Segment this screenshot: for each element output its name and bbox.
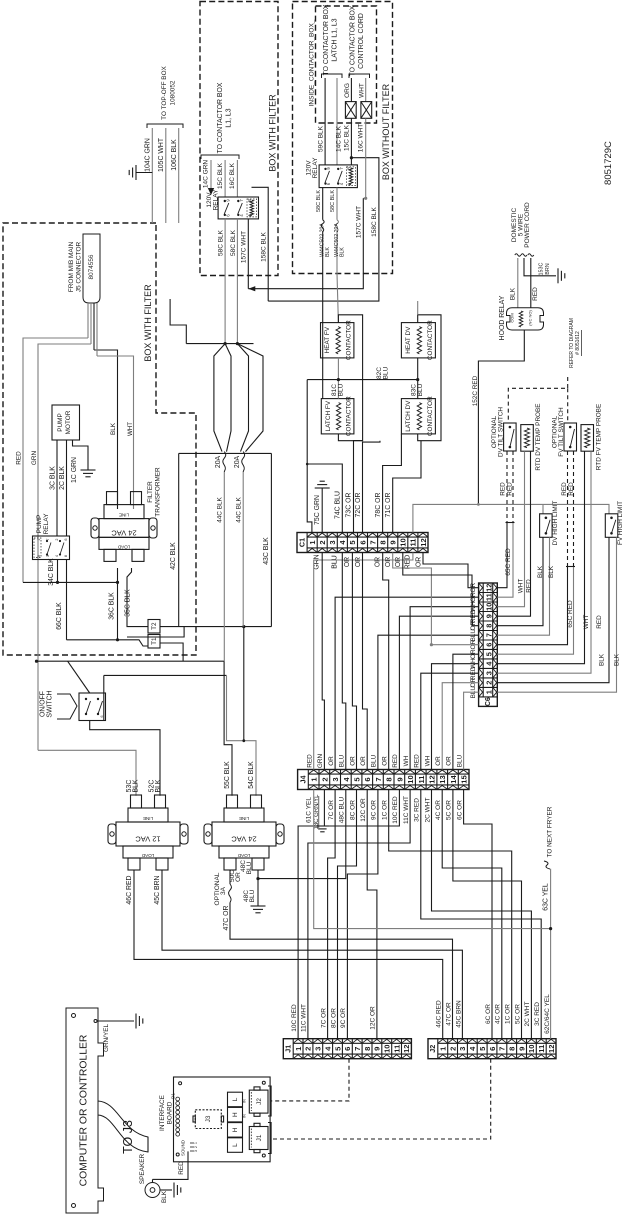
- svg-text:59C BLK: 59C BLK: [318, 125, 325, 152]
- svg-text:BOX WITH FILTER: BOX WITH FILTER: [143, 284, 153, 362]
- wire 6C OR J4-15 to J2-6: [464, 790, 492, 1039]
- svg-text:45C BRN: 45C BRN: [154, 875, 161, 904]
- svg-text:43C BLK: 43C BLK: [263, 537, 270, 565]
- svg-text:2: 2: [318, 540, 327, 544]
- wire 152C RED: [478, 330, 524, 504]
- wire GRN C1-2 to J4-2: [322, 553, 324, 770]
- dashed net to tilt switches: [508, 377, 567, 423]
- svg-text:9: 9: [389, 540, 398, 544]
- svg-text:9C OR: 9C OR: [340, 1008, 347, 1028]
- svg-text:153C: 153C: [539, 262, 545, 275]
- ground (pump motor): [81, 469, 96, 471]
- ground (48C BLU): [251, 905, 266, 907]
- svg-text:HOOD RELAY: HOOD RELAY: [499, 295, 506, 340]
- svg-text:6: 6: [363, 777, 372, 781]
- svg-text:3A: 3A: [220, 886, 227, 895]
- svg-text:BLK: BLK: [537, 565, 544, 578]
- svg-text:BRN: BRN: [545, 263, 551, 274]
- wire 36C BLK (load left): [117, 568, 119, 640]
- svg-text:J1: J1: [256, 1134, 263, 1141]
- svg-text:BLU: BLU: [417, 383, 424, 396]
- dashed box BOX WITH FILTER (contactor-box area top): [200, 2, 278, 276]
- wire 3C BLK: [56, 440, 58, 536]
- svg-text:J4: J4: [298, 776, 307, 784]
- svg-text:RED: RED: [178, 1161, 185, 1175]
- svg-text:7C OR: 7C OR: [328, 800, 335, 820]
- dashed box BOX WITH FILTER (main left enclosure): [3, 223, 196, 655]
- svg-text:T2: T2: [151, 622, 158, 630]
- svg-text:RED: RED: [414, 754, 421, 768]
- svg-text:48C BLU: 48C BLU: [339, 797, 346, 824]
- wire 55C BLK to 24VAC: [224, 661, 232, 796]
- svg-text:8: 8: [484, 624, 493, 628]
- svg-text:B: B: [347, 167, 352, 170]
- svg-text:BLK: BLK: [325, 247, 331, 257]
- svg-text:WHT: WHT: [359, 83, 366, 98]
- svg-text:65C RED: 65C RED: [505, 548, 512, 576]
- svg-text:13: 13: [438, 775, 447, 783]
- wire OR C6-11 to J4-3: [335, 597, 479, 769]
- svg-text:BOX WITHOUT FILTER: BOX WITHOUT FILTER: [381, 83, 391, 180]
- svg-text:0: 0: [37, 555, 41, 557]
- wire 66C/36C to T1: [67, 640, 149, 646]
- svg-text:62C/64C YEL: 62C/64C YEL: [544, 994, 551, 1034]
- wire 12C OR J4-6 to J1-9: [367, 790, 377, 1039]
- svg-text:J2: J2: [256, 1098, 263, 1105]
- wire 104C GRN: [151, 128, 153, 223]
- svg-text:H: H: [232, 1127, 239, 1132]
- svg-text:OR: OR: [344, 557, 351, 567]
- bracket control cord wires: [349, 74, 370, 78]
- power cord wire 153C BRN to ground: [524, 258, 556, 276]
- svg-text:BLK: BLK: [161, 1190, 168, 1203]
- wire 47C OR: [230, 903, 453, 1039]
- wire OR C1-8 to J4-8: [383, 553, 389, 770]
- power cord squiggles: [515, 254, 521, 256]
- wire 44C BLK (right): [242, 472, 244, 627]
- svg-text:CONTACTOR: CONTACTOR: [427, 320, 434, 360]
- wire 43C BLK: [270, 453, 272, 626]
- wire BLU C6-7 to J4-7: [378, 635, 479, 769]
- svg-text:4C OR: 4C OR: [435, 800, 442, 820]
- svg-text:44C BLK: 44C BLK: [217, 496, 224, 522]
- terminal strip J2: [428, 1039, 556, 1059]
- svg-text:OR: OR: [349, 756, 356, 766]
- svg-text:PUMP: PUMP: [57, 413, 64, 431]
- svg-text:OR: OR: [355, 557, 362, 567]
- svg-text:BLU: BLU: [246, 861, 253, 874]
- transformer 12 VAC: [116, 822, 180, 846]
- svg-text:8074556: 8074556: [88, 254, 95, 279]
- svg-text:L1, L3: L1, L3: [226, 108, 233, 127]
- wire 16C WHT (box2): [365, 118, 367, 198]
- branch to C1-4 (74C BLU): [307, 464, 342, 533]
- svg-text:8: 8: [385, 777, 394, 781]
- wire WH C6-4 to J4-12: [432, 664, 479, 770]
- svg-text:12: 12: [484, 584, 493, 592]
- bracket latch wires: [322, 74, 343, 78]
- svg-text:46C RED: 46C RED: [436, 1000, 443, 1028]
- svg-text:BLK: BLK: [155, 779, 162, 792]
- svg-text:16C BLK: 16C BLK: [229, 162, 236, 189]
- indicator light ORG: [350, 78, 352, 102]
- bus from T1 down-left (to on/off switch): [160, 643, 183, 661]
- svg-text:12C OR: 12C OR: [370, 1006, 377, 1030]
- svg-text:RED: RED: [16, 451, 23, 465]
- power cord wire RED: [530, 258, 532, 308]
- svg-text:45C BRN: 45C BRN: [455, 1000, 462, 1028]
- svg-text:47C OR: 47C OR: [445, 1002, 452, 1026]
- wire 7C OR J4-3 to J1-4: [328, 790, 336, 1039]
- wire RED C6-9 to J4-9: [399, 616, 478, 769]
- dashed link J2 strip to board J1: [271, 1059, 491, 1139]
- pump relay: [33, 536, 70, 560]
- svg-text:J1: J1: [283, 1045, 292, 1053]
- dashed box BOX WITHOUT FILTER: [293, 2, 393, 274]
- svg-text:IN: IN: [243, 1099, 247, 1103]
- svg-text:WH: WH: [424, 755, 431, 766]
- wire OR C1-9 to C6-6: [393, 553, 479, 645]
- wire 3C RED J4-11 to J2-11: [421, 790, 541, 1039]
- connector FROM MIB MAIN J5 8074556: [83, 234, 100, 303]
- svg-text:L: L: [232, 1143, 239, 1147]
- bus from T2 to 43C: [160, 626, 271, 628]
- svg-text:SOUND: SOUND: [181, 1140, 186, 1156]
- svg-text:LOAD: LOAD: [237, 853, 250, 858]
- svg-text:BLK: BLK: [339, 247, 345, 257]
- switch pole B wire 675 drop: [103, 675, 105, 720]
- connector J1 (board): [249, 1127, 268, 1150]
- wire OR C1-6 to J4-6: [363, 553, 368, 770]
- svg-text:36C BLK: 36C BLK: [109, 592, 116, 620]
- wire 61C YEL J4-1 to next-fryer node: [314, 790, 551, 929]
- svg-text:10: 10: [399, 538, 408, 546]
- on/off switch: [79, 693, 106, 721]
- wire 72C OR: [363, 441, 381, 534]
- svg-text:LINE: LINE: [143, 816, 153, 821]
- wire 158C BLK (box1): [252, 187, 269, 301]
- svg-text:14C GRN: 14C GRN: [203, 160, 210, 188]
- svg-text:3: 3: [328, 540, 337, 544]
- svg-text:TO J3: TO J3: [121, 1120, 135, 1154]
- svg-text:10: 10: [383, 1044, 392, 1052]
- svg-text:POWER CORD: POWER CORD: [524, 202, 531, 248]
- wire 46C RED: [134, 870, 443, 1039]
- bracket for top-off wires: [147, 124, 183, 128]
- FV loop wire: [338, 315, 362, 441]
- terminal T2: [148, 620, 160, 634]
- svg-text:BLK: BLK: [548, 565, 555, 578]
- svg-text:CONTACTOR: CONTACTOR: [345, 396, 352, 436]
- wire WH C6-10 to J4-10: [410, 607, 479, 770]
- terminal strip C6: [479, 583, 498, 706]
- svg-text:2: 2: [304, 1047, 313, 1051]
- svg-text:3C RED: 3C RED: [534, 1002, 541, 1026]
- svg-text:6: 6: [488, 1047, 497, 1051]
- svg-text:BLK: BLK: [599, 653, 606, 666]
- wire OR C1-5 to J4-5: [352, 553, 356, 770]
- svg-text:LOAD: LOAD: [117, 544, 130, 549]
- ground (13C GRN/YL): [323, 790, 325, 827]
- wire 45C BRN: [162, 870, 462, 1039]
- svg-text:BOARD: BOARD: [167, 1101, 174, 1124]
- svg-text:INTERFACE: INTERFACE: [159, 1095, 166, 1131]
- svg-text:CONTACTOR: CONTACTOR: [427, 396, 434, 436]
- DV loop wire: [418, 315, 441, 441]
- svg-text:10C RED: 10C RED: [392, 796, 399, 824]
- wire RED C1-11 to J4-1: [314, 553, 413, 770]
- svg-text:9: 9: [395, 777, 404, 781]
- svg-text:A: A: [347, 182, 352, 185]
- svg-text:34C BLK: 34C BLK: [48, 558, 55, 586]
- svg-text:OR: OR: [385, 557, 392, 567]
- FV high limit wires: [497, 537, 609, 682]
- svg-text:10C RED: 10C RED: [291, 1004, 298, 1032]
- svg-text:61C YEL: 61C YEL: [306, 797, 313, 823]
- svg-text:20A: 20A: [234, 455, 241, 468]
- wire OR C1-10 to C6-8: [403, 553, 479, 626]
- wire 35C BLK (load right): [127, 568, 148, 627]
- RTD FV temp probe: [581, 425, 594, 452]
- svg-text:1: 1: [37, 538, 41, 540]
- svg-text:T1: T1: [151, 637, 158, 645]
- dashed box INSIDE CONTACTOR BOX: [316, 6, 377, 123]
- svg-text:157C WHT: 157C WHT: [241, 231, 248, 263]
- H/L boxes: [228, 1092, 243, 1107]
- wire 106C BLK: [178, 128, 180, 223]
- wire 2C BLK: [66, 440, 68, 536]
- svg-text:7C OR: 7C OR: [320, 1008, 327, 1028]
- wire 58C BLK (2): [236, 219, 238, 344]
- svg-text:78C OR: 78C OR: [375, 493, 382, 518]
- svg-text:RTD DV TEMP PROBE: RTD DV TEMP PROBE: [535, 403, 542, 470]
- svg-text:OR: OR: [416, 557, 423, 567]
- svg-text:6: 6: [484, 643, 493, 647]
- wire BLU C6-1 to J4-15 (gray): [464, 692, 479, 769]
- svg-text:8: 8: [379, 540, 388, 544]
- svg-text:GRN: GRN: [31, 451, 38, 466]
- svg-text:4: 4: [55, 555, 59, 557]
- svg-text:C6: C6: [485, 697, 492, 706]
- svg-text:LATCH L1, L3: LATCH L1, L3: [332, 18, 339, 61]
- svg-text:44C BLK: 44C BLK: [236, 496, 243, 522]
- svg-text:FILTER: FILTER: [147, 481, 154, 503]
- wire 34C BLK: [57, 560, 59, 583]
- wire 5C OR J4-14 to J2-9: [453, 790, 522, 1039]
- fuse W44C502 20A (1) 58C BLK: [322, 188, 324, 220]
- svg-text:WHT: WHT: [583, 615, 590, 630]
- wire GRN to 53C 12VAC: [38, 750, 136, 796]
- wire 54C BLK to 24VAC: [227, 675, 257, 795]
- svg-text:3: 3: [314, 1047, 323, 1051]
- wire 105C WHT: [165, 128, 167, 223]
- DV high limit wires BLK/BLK: [497, 537, 543, 625]
- relay 120V (box with filter): [218, 197, 258, 219]
- svg-text:12 VAC: 12 VAC: [135, 835, 161, 844]
- svg-text:12: 12: [428, 775, 437, 783]
- svg-text:24 VAC: 24 VAC: [231, 835, 257, 844]
- dashed link J1 strip to board J2: [271, 1059, 349, 1101]
- svg-text:TO CONTACTOR BOX: TO CONTACTOR BOX: [350, 5, 357, 76]
- svg-text:B: B: [247, 199, 252, 202]
- svg-text:ON/OFF: ON/OFF: [40, 691, 47, 717]
- svg-text:10: 10: [406, 775, 415, 783]
- ground (75C GRN): [315, 487, 330, 489]
- FV coil wire and node 81C BLU: [337, 358, 339, 399]
- svg-text:GRN/YEL: GRN/YEL: [103, 1024, 110, 1053]
- RTD DV temp probe: [521, 425, 534, 452]
- svg-text:11: 11: [409, 538, 418, 547]
- svg-text:63C YEL: 63C YEL: [543, 883, 550, 911]
- svg-text:BLU: BLU: [371, 754, 378, 767]
- wire 4C OR J4-13 to J2-7: [442, 790, 502, 1039]
- svg-text:15C BLK: 15C BLK: [344, 124, 351, 151]
- svg-text:58C BLK: 58C BLK: [218, 229, 225, 256]
- svg-text:HEAT DV: HEAT DV: [405, 326, 412, 354]
- svg-text:MOTOR: MOTOR: [65, 410, 72, 434]
- svg-text:RELAY: RELAY: [213, 189, 220, 210]
- svg-text:3C BLK: 3C BLK: [50, 466, 57, 490]
- svg-text:3: 3: [331, 777, 340, 781]
- svg-text:C1: C1: [297, 538, 306, 547]
- svg-text:8051729C: 8051729C: [603, 141, 614, 185]
- ground (153C BRN): [557, 268, 559, 283]
- wire C1-11 to high limits (gray): [413, 504, 609, 532]
- svg-text:11: 11: [417, 775, 426, 784]
- svg-text:11C WHT: 11C WHT: [403, 796, 410, 824]
- node 58C junctions: [224, 342, 227, 345]
- svg-text:OR: OR: [382, 756, 389, 766]
- svg-text:BLU: BLU: [249, 889, 256, 902]
- svg-text:BLU: BLU: [456, 754, 463, 767]
- svg-text:COM: COM: [510, 313, 515, 322]
- svg-text:8: 8: [363, 1047, 372, 1051]
- svg-text:3: 3: [458, 1047, 467, 1051]
- svg-text:157C WHT: 157C WHT: [356, 206, 363, 238]
- wire 16C BLK: [236, 160, 238, 197]
- svg-text:72C OR: 72C OR: [355, 493, 362, 518]
- svg-text:J5 CONNECTOR: J5 CONNECTOR: [76, 241, 83, 292]
- svg-text:71C OR: 71C OR: [385, 493, 392, 518]
- wire 71C OR from LATCH DV coil: [393, 441, 421, 534]
- FV tilt wires: [567, 451, 569, 567]
- svg-text:8C OR: 8C OR: [349, 800, 356, 820]
- wire 73C OR from LATCH FV loop: [354, 441, 363, 534]
- node bus 582 (RED/34C/36C): [23, 581, 118, 583]
- svg-text:RELAY: RELAY: [43, 513, 50, 534]
- svg-text:1C OR: 1C OR: [382, 800, 389, 820]
- power cord wire BLK: [517, 258, 519, 308]
- svg-text:OR: OR: [395, 557, 402, 567]
- svg-text:DV HIGH LIMIT: DV HIGH LIMIT: [552, 501, 559, 546]
- wire 15C BLK: [224, 160, 226, 197]
- svg-text:58C BLK: 58C BLK: [330, 190, 336, 212]
- svg-text:WHT: WHT: [127, 422, 134, 436]
- svg-text:47C OR: 47C OR: [223, 906, 230, 931]
- svg-text:BLK: BLK: [510, 287, 517, 300]
- svg-text:RED: RED: [307, 754, 314, 768]
- svg-text:6: 6: [64, 538, 68, 540]
- svg-text:LOAD: LOAD: [141, 853, 154, 858]
- terminal strip C1: [297, 533, 428, 553]
- svg-text:11: 11: [537, 1044, 546, 1053]
- svg-text:3C RED: 3C RED: [414, 798, 421, 822]
- svg-text:11C WHT: 11C WHT: [301, 1004, 308, 1032]
- svg-text:158C BLK: 158C BLK: [371, 207, 378, 237]
- svg-text:RED: RED: [568, 482, 575, 496]
- fuse OPTIONAL 3A: [229, 870, 231, 884]
- connector J2 (board): [249, 1090, 268, 1113]
- terminal strip J1: [283, 1039, 411, 1059]
- wire 1C GRN to ground: [73, 440, 89, 470]
- switch pole A wire to 12VAC (52C): [90, 721, 160, 796]
- wire 58C to FV contactors: [322, 274, 324, 399]
- svg-text:7: 7: [498, 1047, 507, 1051]
- svg-text:LINE: LINE: [239, 816, 249, 821]
- svg-text:BLU: BLU: [383, 366, 390, 379]
- svg-text:L: L: [232, 1097, 239, 1101]
- svg-text:A: A: [247, 214, 252, 217]
- svg-text:OR: OR: [374, 557, 381, 567]
- svg-text:RTD FV TEMP PROBE: RTD FV TEMP PROBE: [596, 404, 603, 470]
- wire 48C BLU with ground: [257, 870, 259, 879]
- svg-text:54C BLK: 54C BLK: [248, 761, 255, 789]
- controller ground wire GRN/YEL: [94, 1020, 97, 1023]
- wire RED C6-3 to J4-11: [421, 673, 479, 769]
- svg-text:7: 7: [353, 1047, 362, 1051]
- svg-text:152C RED: 152C RED: [472, 375, 479, 406]
- svg-text:J3: J3: [205, 1115, 212, 1122]
- svg-text:24 VAC: 24 VAC: [111, 529, 137, 538]
- svg-text:WHT: WHT: [518, 579, 525, 594]
- fuse W44C502 20A (2) 58C BLK: [336, 188, 338, 220]
- svg-text:TO NEXT FRYER: TO NEXT FRYER: [547, 806, 554, 857]
- wire 44C BLK (left): [223, 472, 225, 661]
- bracket contactor wires: [201, 155, 239, 159]
- high limit FV: [605, 514, 618, 538]
- wire 1C OR J4-8 to J2-8: [389, 790, 512, 1039]
- svg-text:OR: OR: [360, 756, 367, 766]
- svg-text:8: 8: [507, 1047, 516, 1051]
- svg-text:3: 3: [194, 1150, 198, 1152]
- svg-text:BOX WITH FILTER: BOX WITH FILTER: [268, 94, 278, 172]
- speaker wire BLK to ground: [160, 1189, 172, 1191]
- link 157C between boxes: [248, 274, 363, 289]
- indicator light WHT: [365, 78, 367, 102]
- wire 8C OR J4-5 to J1-5: [338, 790, 357, 1039]
- svg-text:58C BLK: 58C BLK: [230, 229, 237, 256]
- svg-text:PUMP: PUMP: [36, 515, 43, 534]
- svg-text:3: 3: [484, 671, 493, 675]
- svg-text:14C BLK: 14C BLK: [336, 125, 343, 152]
- svg-text:6C OR: 6C OR: [485, 1004, 492, 1024]
- svg-text:TO CONTACTOR BOX: TO CONTACTOR BOX: [323, 4, 330, 75]
- svg-text:158C BLK: 158C BLK: [261, 232, 268, 262]
- svg-text:TO TOP-OFF BOX: TO TOP-OFF BOX: [161, 65, 168, 119]
- DV probe wires WHT/RED: [497, 451, 524, 607]
- terminal strip J4: [298, 770, 469, 790]
- svg-text:SWITCH: SWITCH: [47, 690, 54, 717]
- svg-text:2: 2: [194, 1146, 198, 1148]
- svg-text:7: 7: [368, 540, 377, 544]
- bus 661 to on/off switch: [37, 660, 225, 662]
- wire 15C BLK (box2): [350, 118, 352, 165]
- svg-text:12: 12: [419, 538, 428, 546]
- wire OR C6-5 to J4-14: [453, 654, 479, 769]
- high limit DV: [540, 514, 553, 538]
- svg-text:HEAT FV: HEAT FV: [324, 326, 331, 353]
- svg-text:BLK: BLK: [614, 653, 621, 666]
